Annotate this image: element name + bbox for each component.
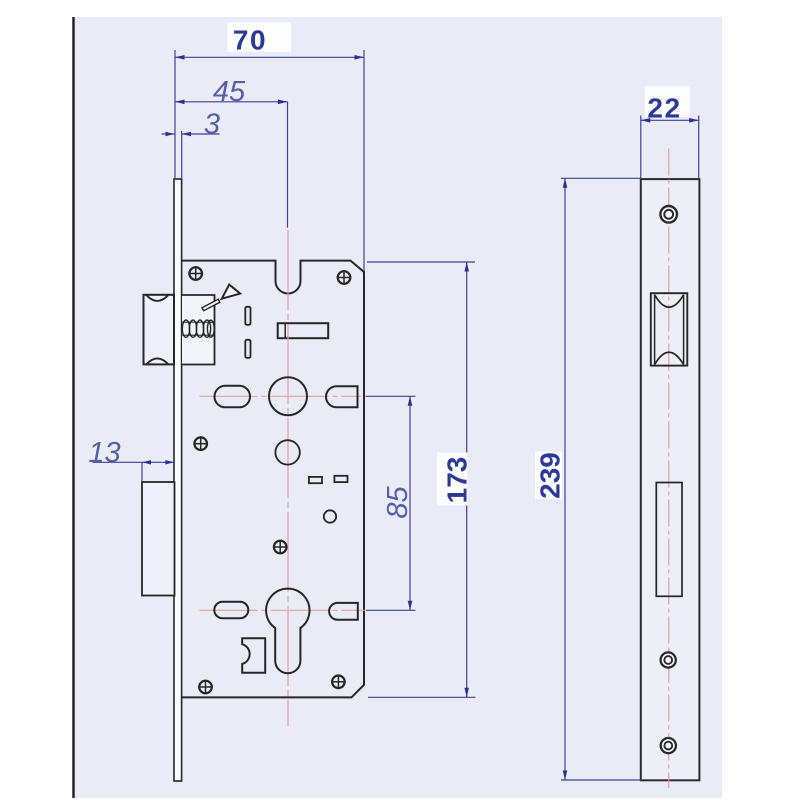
svg-text:70: 70 [233, 25, 267, 56]
dim 85 extension bottom [366, 609, 416, 611]
latch bolt (protruding left) [144, 295, 175, 365]
screw cross top-right [337, 270, 352, 285]
left frame border line [72, 17, 74, 798]
arrows 22 [641, 118, 651, 123]
screw hole top [660, 206, 677, 223]
faceplate strip (edge view) [174, 179, 182, 781]
hub row holes [215, 377, 358, 464]
svg-text:13: 13 [88, 437, 120, 469]
bolt guide rectangle [278, 323, 329, 338]
dim 85 extension top [366, 395, 416, 397]
svg-text:239: 239 [535, 452, 566, 499]
dim 239 line [564, 178, 566, 780]
small circle below hub [275, 440, 299, 464]
label 173 [437, 453, 468, 506]
red centerlines [200, 230, 366, 726]
faceplate view vertical centerline [668, 149, 670, 789]
screw hole bottom [661, 738, 676, 753]
small vertical slot upper [245, 307, 250, 325]
latch bolt bottom concave arc [147, 358, 168, 364]
dim 85 line [409, 396, 411, 610]
label 22 [645, 86, 690, 117]
svg-text:3: 3 [204, 109, 220, 141]
right D-hole [326, 386, 358, 407]
main vertical centerline [287, 230, 289, 726]
dim 22 extension right [698, 116, 700, 179]
latch bolt top concave arc [147, 295, 168, 301]
svg-text:45: 45 [213, 76, 246, 108]
dim 3 extension right [181, 131, 183, 179]
deadbolt opening [656, 483, 682, 597]
arrows 70 [175, 55, 185, 60]
svg-text:173: 173 [442, 457, 473, 504]
bolt guide divider [284, 323, 286, 338]
dim 22 extension left [640, 116, 642, 179]
dim 239 extension bottom [561, 779, 642, 781]
screw cross bottom-left [198, 680, 213, 695]
cylinder horizontal centerline [200, 609, 366, 611]
arrows 13 [142, 460, 151, 464]
lever rod [202, 299, 220, 310]
dim 45 extension right [287, 102, 289, 228]
screw hole middle [661, 652, 676, 667]
small circle middle [324, 510, 336, 522]
screw cross symbols [188, 266, 351, 694]
dim 239 extension top [561, 177, 641, 179]
screw cross top-left [188, 266, 203, 281]
arrows 3 [166, 132, 175, 136]
dimension arrows [142, 55, 699, 780]
dim 22 line [641, 119, 699, 121]
dim 70 extension left [174, 50, 176, 179]
flag triangle [222, 285, 240, 299]
screw cross center [273, 540, 288, 555]
lock case outline with top notch and chamfered right corners [182, 261, 364, 698]
svg-text:22: 22 [647, 93, 681, 124]
dim 70 line [175, 56, 364, 58]
arrows 173 [464, 262, 469, 272]
deadbolt (protruding left, lower) [142, 482, 175, 596]
left obround hole [215, 386, 251, 408]
dim 3 line [162, 133, 175, 135]
small slots middle [309, 477, 322, 483]
dim 173 line [466, 262, 468, 697]
handle hub circle [269, 377, 307, 415]
arrows 239 [563, 178, 568, 188]
screw cross mid-left [193, 436, 208, 451]
euro cylinder hole [266, 589, 309, 674]
dim 173 extension bottom [368, 696, 476, 698]
arrows 45 [175, 100, 185, 105]
left obround hole lower [214, 602, 248, 619]
dim 13 extension [141, 462, 143, 481]
faceplate front view [641, 179, 700, 780]
small vertical slot lower [245, 340, 250, 358]
C-shaped stop plate [242, 638, 265, 673]
arrows 85 [408, 396, 413, 406]
latch opening [651, 293, 688, 365]
screw cross bottom-right [331, 675, 346, 690]
label 239 [535, 452, 562, 500]
dim 45 line [175, 101, 288, 103]
svg-text:85: 85 [382, 486, 414, 519]
cylinder row [214, 589, 357, 674]
latch follower box inside case [182, 295, 215, 365]
dim 173 extension top [367, 261, 475, 263]
spring in latch box [182, 320, 214, 337]
label 70 [228, 23, 292, 53]
hub horizontal centerline [200, 395, 362, 397]
dim 70 extension right [363, 50, 365, 271]
right D-hole lower [329, 603, 358, 620]
dim 13 line [93, 461, 175, 463]
